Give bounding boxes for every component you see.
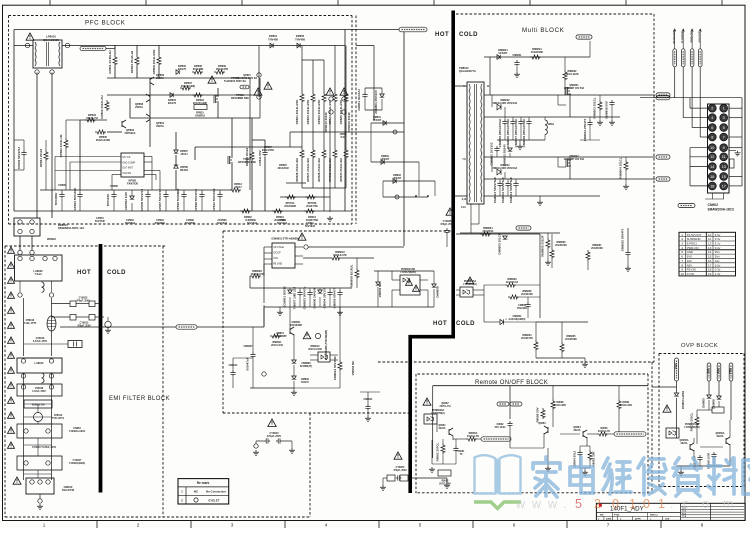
svg-text:UF4007: UF4007 (381, 158, 390, 161)
diode DM806 (717, 396, 722, 399)
svg-text:CP809 50V686U: CP809 50V686U (176, 189, 180, 212)
wire PFC bottom rail (14, 210, 352, 212)
svg-text:LTV817M(A): LTV817M(A) (431, 412, 445, 415)
svg-text:470pF, 250V: 470pF, 250V (76, 300, 90, 303)
wire colA (251, 118, 253, 150)
wire QM8602 drain (569, 157, 571, 179)
svg-text:BZX84: BZX84 (180, 169, 188, 172)
diode DM8602 (497, 104, 501, 110)
wire q col (293, 334, 295, 360)
svg-text:TVR 14751: TVR 14751 (52, 417, 65, 420)
svg-text:2012F/75K: 2012F/75K (306, 219, 319, 222)
svg-text:207CL/7H: 207CL/7H (440, 405, 451, 408)
net pill multi bottom (516, 226, 531, 230)
svg-text:RP826 2012L/1M: RP826 2012L/1M (295, 158, 299, 182)
wire aux tap (345, 131, 404, 133)
resistor RP832 bottom (240, 209, 251, 213)
svg-text:VR CHsat: VR CHsat (273, 246, 284, 249)
ground CY8040 right (291, 441, 293, 448)
wire ovp q links (693, 438, 695, 443)
Multi BLOCK dashed outline (456, 13, 654, 15)
net pill bus (656, 96, 670, 100)
diode DM801 aux (371, 122, 404, 124)
svg-text:100/100MF: 100/100MF (290, 324, 303, 327)
svg-text:CM8611 50V470uF: CM8611 50V470uF (501, 177, 505, 203)
IC KP801 FAN7530 (121, 153, 144, 177)
wire ovp pill3 drop (718, 381, 720, 396)
diode DM805 (707, 395, 712, 398)
svg-text:R8062 207CL: R8062 207CL (436, 442, 440, 461)
svg-text:201/2F20K: 201/2F20K (555, 244, 567, 247)
svg-text:CM804 25V100: CM804 25V100 (323, 287, 327, 308)
svg-text:2222A: 2222A (680, 442, 687, 445)
svg-text:CP810 50V104H: CP810 50V104H (212, 189, 216, 212)
transistor QP803 (122, 120, 126, 128)
resistor RP815 box (194, 105, 207, 110)
wire remote mid drop (509, 386, 511, 419)
resistor RP806 (192, 70, 203, 74)
ground CM8607 (252, 359, 254, 388)
svg-text:P12V: P12V (675, 363, 678, 369)
svg-text:SM: SM (600, 515, 603, 517)
wire sec rail5 (484, 195, 600, 197)
net pill CN902 label (678, 203, 695, 207)
svg-text:470pF, 250V: 470pF, 250V (440, 223, 454, 226)
svg-text:EMI FILTER BLOCK: EMI FILTER BLOCK (109, 396, 170, 402)
wire QM8601 drain (569, 95, 571, 117)
svg-text:CM8601: CM8601 (512, 54, 522, 57)
warning triangle CN8010 (13, 477, 21, 484)
svg-text:APM4487 40V 50A: APM4487 40V 50A (564, 158, 585, 161)
capacitor CP807 (163, 192, 168, 199)
svg-text:R8082: R8082 (442, 481, 449, 483)
svg-text:VM803 NC: VM803 NC (351, 360, 355, 376)
wire stub remote bottom (432, 440, 434, 458)
warning triangle remote (423, 398, 431, 405)
resistor RM8665 (560, 342, 564, 353)
svg-text:201CL222R: 201CL222R (566, 73, 579, 76)
svg-text:16: 16 (710, 175, 714, 179)
svg-text:COLD: COLD (456, 321, 475, 327)
svg-text:13: 13 (722, 165, 726, 169)
OVP BLOCK dashed outline (659, 353, 744, 355)
svg-text:1: 1 (43, 523, 46, 528)
capacitor bank low (499, 179, 501, 181)
wire LP8010 secondary right (51, 73, 53, 219)
svg-text:CY8010 TH 5kV, 250V: CY8010 TH 5kV, 250V (32, 446, 57, 449)
svg-text:RP808 2012L/20R: RP808 2012L/20R (152, 49, 156, 75)
watermark char 4 (xiu) (638, 458, 666, 495)
wire CN902 pin1 left (674, 97, 676, 99)
svg-text:A5V: A5V (717, 368, 720, 373)
standby cap drops (289, 288, 291, 290)
net label TM8010-D (399, 27, 427, 32)
svg-text:470pF, 250V: 470pF, 250V (393, 469, 407, 472)
resistor RP808 (157, 55, 161, 66)
svg-text:DAC/17FM: DAC/17FM (62, 489, 74, 492)
svg-text:S/OCP: S/OCP (273, 252, 281, 255)
svg-text:5: 5 (723, 126, 725, 130)
svg-text:50V474J: 50V474J (277, 222, 288, 225)
resistor ladder upper (301, 60, 303, 92)
capacitor CP805 (145, 192, 150, 199)
diode DM802 aux (371, 161, 419, 163)
wire aux bottom (383, 196, 428, 198)
ground standby B (339, 307, 341, 310)
resistor R8065A (466, 437, 477, 441)
svg-text:0.47uF, 250V: 0.47uF, 250V (33, 340, 48, 343)
diode DP804 (170, 93, 173, 98)
drain pin circle (304, 245, 308, 249)
resistor R8070 (695, 415, 699, 426)
wire bus to connector (640, 97, 742, 99)
svg-text:RP812 2012J: RP812 2012J (245, 147, 249, 166)
svg-text:201/2F47K: 201/2F47K (521, 337, 533, 340)
wire opto pins (310, 354, 318, 356)
svg-text:50V473F: 50V473F (185, 222, 196, 225)
zener ZCM8601 (288, 290, 293, 293)
svg-text:5-3Ω, 25℃: 5-3Ω, 25℃ (24, 322, 36, 325)
svg-text:DATE: DATE (606, 518, 612, 521)
wire q8064 (553, 429, 580, 431)
wire EMI rail right (51, 298, 53, 356)
vertical net pill B (681, 49, 685, 67)
wire q8061 (452, 428, 454, 436)
wire IC left drops (263, 247, 265, 303)
wire CY8050 (383, 477, 387, 479)
diode DM8601 (497, 55, 500, 60)
svg-text:50V474F: 50V474F (95, 220, 106, 223)
svg-text:201/2F90K: 201/2F90K (565, 338, 577, 341)
diode DM8606 (318, 290, 323, 293)
svg-text:2012F/75K: 2012F/75K (306, 205, 318, 208)
svg-text:THV408: THV408 (295, 37, 305, 41)
capacitor C8061 (453, 446, 458, 453)
coil LA8020 winding (42, 282, 45, 292)
HOT-COLD barrier top (isolation line) (410, 11, 453, 494)
svg-text:0.10: 0.10 (461, 206, 466, 209)
svg-text:2N7002A: 2N7002A (125, 131, 136, 135)
vertical net pill OVP3 (717, 363, 721, 381)
svg-text:m: m (723, 497, 733, 511)
svg-text:50V104J: 50V104J (247, 222, 258, 225)
svg-text:CP838 50V470K: CP838 50V470K (194, 188, 198, 211)
svg-text:1: 1 (723, 107, 725, 111)
wire mos2 (231, 118, 233, 156)
resistor RP812 col A (250, 150, 254, 161)
svg-text:CM8606 25V/1000uF: CM8606 25V/1000uF (506, 118, 510, 147)
wire cm8651 (484, 321, 500, 323)
svg-text:C8064 201J: C8064 201J (573, 451, 577, 468)
svg-text:Remote ON/OFF BLOCK: Remote ON/OFF BLOCK (475, 380, 548, 386)
cap CY8027 box (17, 456, 62, 470)
svg-text:10: 10 (710, 146, 714, 150)
diode DP802 (176, 70, 179, 75)
ground cap bank (519, 140, 521, 144)
diode DP801 (270, 43, 273, 48)
svg-text:201/2J5.1K: 201/2J5.1K (506, 281, 519, 284)
EMI pads top (18, 250, 22, 254)
svg-text:DM805: DM805 (702, 398, 706, 408)
wire emi rails low (23, 373, 25, 480)
diode DM8604 (497, 169, 501, 175)
svg-text:7.5uH: 7.5uH (34, 272, 41, 276)
svg-text:201/2F20K: 201/2F20K (591, 247, 603, 250)
svg-text:15: 15 (722, 175, 726, 179)
svg-text:CP806: CP806 (58, 184, 66, 187)
capacitor C8068 (711, 452, 716, 459)
svg-text:SMAW200A-18C3: SMAW200A-18C3 (708, 207, 734, 211)
svg-text:8: 8 (701, 523, 704, 528)
warning triangle CY8040 (268, 419, 277, 427)
diode DM8609 (292, 376, 297, 379)
zener ZCM801 (380, 94, 385, 97)
wire primary bottom (455, 195, 467, 197)
wire bus corner (741, 98, 743, 186)
svg-text:CM8603 50V47u: CM8603 50V47u (303, 286, 307, 309)
warning triangle TP801 (208, 76, 216, 83)
svg-text:CP802 50V104K: CP802 50V104K (73, 187, 77, 210)
wire r8065a (453, 438, 466, 440)
jumper box right (730, 159, 735, 168)
wire EMI rail left (23, 298, 25, 356)
svg-text:RM8609 821RJL: RM8609 821RJL (350, 264, 354, 287)
svg-text:N.C.: N.C. (341, 136, 346, 139)
svg-text:0.47uF, 250V: 0.47uF, 250V (32, 390, 46, 393)
svg-text:CP804 50V474J: CP804 50V474J (17, 147, 21, 169)
svg-text:GAD COMP: GAD COMP (122, 161, 135, 164)
svg-text:2012J/47K: 2012J/47K (262, 149, 274, 152)
svg-text:0: 0 (643, 497, 650, 511)
svg-text:ICM8601 STR-A6062M: ICM8601 STR-A6062M (271, 237, 298, 241)
warning triangle right B (340, 88, 348, 95)
wire ic left rails (54, 157, 56, 171)
svg-text:RP823 2012L/20K: RP823 2012L/20K (317, 99, 321, 125)
mosfet QM8602 (566, 159, 571, 167)
svg-text:CX8028: CX8028 (35, 388, 44, 390)
svg-text:DM8608: DM8608 (436, 286, 440, 298)
wire EMI to standby (60, 326, 176, 328)
EMI cross wires (24, 343, 52, 345)
resistor RP803 (85, 118, 96, 122)
label RM8612 (303, 332, 311, 339)
capacitor CM8603 (307, 290, 312, 297)
svg-text:4: 4 (325, 523, 328, 528)
svg-text:201CL4.7K: 201CL4.7K (598, 430, 610, 433)
transformer LP8010 (33, 40, 62, 68)
resistor RM8663 (505, 283, 516, 287)
svg-text:50V/47uF: 50V/47uF (246, 357, 250, 370)
vertical net pill A (673, 49, 677, 67)
svg-text:201CL/100: 201CL/100 (271, 344, 283, 347)
capacitor CX8028 (17, 384, 62, 396)
svg-text:RM8604 201CL: RM8604 201CL (619, 157, 623, 178)
svg-text:CN902: CN902 (708, 203, 719, 207)
resistor RP7810 (285, 195, 296, 199)
ground CN8010 (39, 494, 41, 499)
wire remote right drop (639, 386, 641, 410)
svg-text:50V684J: 50V684J (125, 222, 136, 225)
watermark char 1 (jia) (533, 457, 560, 497)
resistor RP804 (135, 55, 139, 66)
svg-text:2: 2 (137, 523, 140, 528)
watermark char 7 (wang) (743, 460, 750, 494)
svg-text:A5V-OUT: A5V-OUT (698, 31, 702, 43)
svg-text:CM8610 50V470uF: CM8610 50V470uF (493, 177, 497, 203)
svg-text:Multi BLOCK: Multi BLOCK (522, 27, 565, 34)
resistor RM8664 (534, 340, 538, 351)
wire PFC line rail (14, 45, 33, 47)
EMI FILTER BLOCK dashed outline (4, 246, 6, 517)
capacitor CP811 (262, 150, 267, 157)
net pill remote A (481, 437, 511, 441)
svg-text:.: . (670, 497, 673, 511)
svg-text:RP828 2012L/1M: RP828 2012L/1M (317, 158, 321, 182)
svg-text:10: 10 (680, 272, 684, 276)
wire pill C drop (691, 67, 693, 128)
warning triangle CY8050 (394, 452, 402, 459)
wire net to rail (106, 48, 115, 50)
svg-text:THV408: THV408 (268, 37, 278, 41)
title block (596, 503, 745, 520)
svg-text:50V124K: 50V124K (106, 193, 110, 206)
connector CN902 body (708, 104, 730, 193)
resistor ladder lower (301, 132, 303, 148)
svg-text:RP821 2012L/20K: RP821 2012L/20K (295, 99, 299, 125)
svg-text:RP802 2012L/7H: RP802 2012L/7H (100, 95, 104, 118)
svg-text:201/2F1K: 201/2F1K (483, 230, 494, 233)
svg-text:SUSPEND: SUSPEND (681, 31, 685, 44)
wire QP group top (114, 46, 116, 56)
wire LP8010 secondary left (36, 73, 38, 219)
svg-text:3: 3 (723, 116, 725, 120)
opto PCM8015AB hot (400, 275, 420, 295)
svg-text:2022A: 2022A (156, 124, 164, 128)
wire QP col (149, 84, 151, 95)
capacitor CY8015 pair (52, 316, 71, 318)
wire pfc mid link (232, 146, 302, 148)
svg-text:OVP BLOCK: OVP BLOCK (681, 343, 718, 349)
wire snubber branch (356, 45, 374, 47)
resistor RP831 (44, 150, 48, 161)
net pill rail1 (656, 93, 670, 97)
wire right col330 (329, 120, 331, 212)
svg-text:VO2 RD: VO2 RD (122, 172, 131, 175)
svg-text:D6SBN20A 600V, 10A: D6SBN20A 600V, 10A (58, 226, 84, 230)
wire hbus2 (107, 94, 260, 96)
wire fuse to standby (197, 326, 264, 328)
IC pins right (144, 156, 152, 158)
svg-text:RP801 30 96L1H: RP801 30 96L1H (108, 50, 112, 73)
svg-text:CM8641: CM8641 (363, 398, 373, 401)
ground CY8050 left (382, 478, 384, 485)
wire PFC right rail (344, 30, 346, 212)
transistor Q8066A (726, 437, 730, 445)
capacitor CM8601t (514, 60, 519, 67)
svg-text:SP8010 2012F: SP8010 2012F (324, 112, 328, 132)
wire ovp in (652, 386, 677, 388)
resistor RP844 bottom (304, 209, 315, 213)
resistor RP7848 (305, 195, 316, 199)
bridge rectifier BD8010 (14, 218, 40, 236)
svg-text:c: c (683, 497, 689, 511)
thermistor NT8010 (47, 316, 56, 331)
wire PFC top rail (14, 29, 345, 31)
svg-text:821RJL47K: 821RJL47K (333, 254, 347, 257)
svg-text:EYELET: EYELET (209, 499, 220, 503)
svg-text:THA6002 500V 8A: THA6002 500V 8A (237, 77, 257, 80)
svg-text:CM8605 25V/1000uF: CM8605 25V/1000uF (498, 118, 502, 147)
svg-text:50V224H: 50V224H (517, 307, 527, 310)
svg-text:COLD: COLD (459, 32, 478, 38)
svg-text:CM8607: CM8607 (243, 345, 253, 348)
svg-text:o: o (702, 497, 709, 511)
svg-text:FMEN-210B 150V/10A: FMEN-210B 150V/10A (493, 167, 518, 170)
net pill rail4 (656, 177, 670, 181)
wire cold mid rail (456, 233, 540, 235)
svg-text:2012J(AB6): 2012J(AB6) (181, 84, 195, 88)
diode DM8603 (508, 148, 513, 151)
capacitor C8064 (577, 450, 582, 457)
svg-text:KSC1008BT: KSC1008BT (273, 335, 287, 338)
svg-text:APPR: APPR (635, 518, 641, 521)
ground CY8050 right (446, 478, 448, 483)
wire multi top branch (484, 56, 590, 58)
svg-text:HOT: HOT (433, 321, 447, 327)
svg-text:DM806 1N4148: DM806 1N4148 (313, 287, 317, 308)
capacitor CM8641 hot side (365, 404, 370, 411)
svg-text:17: 17 (722, 184, 726, 188)
svg-text:2012J/1M: 2012J/1M (277, 167, 288, 170)
svg-text:DM8605 201CF: DM8605 201CF (498, 233, 502, 254)
inductor LA8020 (15, 255, 63, 281)
resistor RM8667 (586, 250, 590, 261)
resistor RM8608 (250, 274, 261, 278)
watermark char 2 (dian) (570, 457, 593, 493)
svg-text:14: 14 (710, 165, 714, 169)
warning triangle OVP (663, 405, 671, 412)
wire sec rail3 (484, 156, 655, 158)
capacitor CM801 snubber (362, 92, 367, 99)
wire top link (345, 29, 399, 31)
svg-text:w: w (515, 497, 526, 511)
wires pills up (674, 30, 676, 49)
svg-text:Q8063: Q8063 (538, 422, 546, 425)
mosfet QP809 (228, 156, 233, 164)
ground q8064 (580, 467, 590, 469)
svg-text:CP8010 2012F: CP8010 2012F (347, 112, 351, 132)
resistor RP819 bottom (272, 209, 283, 213)
svg-text:CM8620 50V470: CM8620 50V470 (621, 228, 625, 251)
resistor RP802 (105, 100, 109, 111)
title text 140F1_ADY (599, 504, 602, 507)
svg-text:2: 2 (594, 497, 601, 511)
svg-text:.: . (563, 497, 566, 511)
terminal QP801 cluster (258, 46, 260, 98)
Remote ON/OFF BLOCK dashed outline (418, 373, 649, 375)
diode DP807 (174, 150, 179, 153)
wire ladder top link (302, 59, 324, 61)
svg-text:50V184J: 50V184J (305, 225, 316, 228)
resistor R8065 (597, 432, 608, 436)
svg-text:R8070 201CL: R8070 201CL (690, 412, 694, 431)
EMI left warning triangles (8, 247, 15, 253)
net pill multi top (576, 35, 592, 39)
transformer TM8010 (467, 82, 484, 204)
watermark char 5 (zi) (673, 458, 701, 496)
wire cap bank bottom (497, 139, 545, 141)
IC pins left (55, 156, 121, 158)
